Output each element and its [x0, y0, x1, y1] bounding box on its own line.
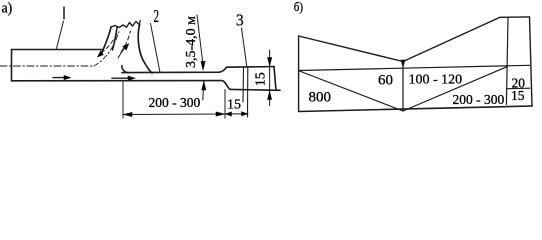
dim 15 right lower arrowhead (up) [267, 91, 271, 100]
neck and head top edge [227, 66, 275, 69]
plan horizontal table line [299, 65, 530, 70]
strip top edge [122, 67, 227, 72]
centerline curving up into curl [94, 32, 119, 67]
bar outline [12, 50, 223, 81]
svg-text:б): б) [294, 0, 303, 14]
neck and head bottom edge [231, 88, 281, 91]
plan vertex arrowhead [401, 60, 405, 68]
dim 15 bottom left arrowhead [225, 112, 232, 116]
extension line x=225 [224, 90, 226, 119]
plan 20/15 divider [507, 87, 530, 90]
curl right tail [139, 21, 142, 26]
plan lower-right diagonal [403, 67, 507, 111]
dim 3,5-4,0 lower line [203, 81, 204, 100]
cut line right / extension [247, 67, 249, 117]
cut line left [242, 67, 245, 102]
flow arrowhead A (down-left) [97, 51, 103, 58]
curl base hook (strip front under curl) [122, 66, 128, 73]
svg-text:а): а) [2, 0, 13, 17]
head right edge [274, 67, 276, 91]
svg-text:3,5-4,0 м: 3,5-4,0 м [184, 16, 199, 68]
flow dashed curve C [118, 47, 126, 58]
svg-text:200 - 300: 200 - 300 [149, 95, 201, 110]
plan inner vertical x=507 [506, 17, 508, 104]
curl outer-left edge [102, 27, 111, 53]
leader line 2 [151, 24, 161, 73]
centerline (dash-dot) [0, 65, 94, 67]
plan bottom edge [299, 106, 532, 112]
svg-text:3: 3 [236, 12, 244, 30]
svg-text:800: 800 [309, 90, 332, 106]
strip-to-neck bottom curve [222, 81, 231, 90]
dim 3,5-4,0 lower arrowhead (up) [202, 81, 206, 90]
plan right edge [530, 17, 533, 106]
svg-text:200 - 300: 200 - 300 [453, 92, 505, 107]
plan top edge [500, 16, 530, 18]
svg-text:15: 15 [254, 72, 269, 86]
dim 15 right upper arrowhead (down) [267, 58, 272, 67]
svg-text:15: 15 [511, 88, 525, 103]
flow dashed curve A [101, 32, 118, 53]
svg-text:2: 2 [154, 7, 160, 26]
curl right edge [138, 25, 152, 73]
dim 15 right vertical line [269, 50, 271, 106]
plan inner vertical x=403 [402, 63, 404, 111]
label 1 [63, 7, 65, 19]
extension line x=123 [122, 81, 124, 118]
plan upper-right diagonal [403, 17, 500, 61]
curl torn top edge [111, 22, 140, 28]
dim 200-300 left arrowhead [123, 112, 132, 116]
dim 200-300 right arrowhead [216, 112, 225, 116]
dim 3,5-4,0 upper arrowhead (down) [201, 61, 206, 70]
motion arrow 2 [112, 76, 136, 81]
svg-text:100 - 120: 100 - 120 [409, 73, 463, 88]
svg-text:15: 15 [227, 98, 241, 113]
dim 15 bottom line [225, 113, 248, 115]
flow dashed curve B [121, 31, 131, 52]
plan lower-left diagonal [300, 71, 404, 111]
dim 3,5-4,0 upper line [197, 15, 203, 63]
motion arrow 1 [53, 75, 71, 80]
leader line 1 [57, 21, 64, 49]
svg-text:60: 60 [378, 73, 393, 89]
plan outline left edge [298, 36, 300, 112]
leader line 3 [242, 28, 247, 67]
curl inner-left edge [113, 28, 118, 51]
dim 15 bottom right arrowhead [242, 112, 249, 116]
plan upper-left diagonal [299, 36, 403, 62]
dim 200-300 line [123, 113, 225, 116]
flow arrowhead C (up-right) [123, 44, 130, 51]
